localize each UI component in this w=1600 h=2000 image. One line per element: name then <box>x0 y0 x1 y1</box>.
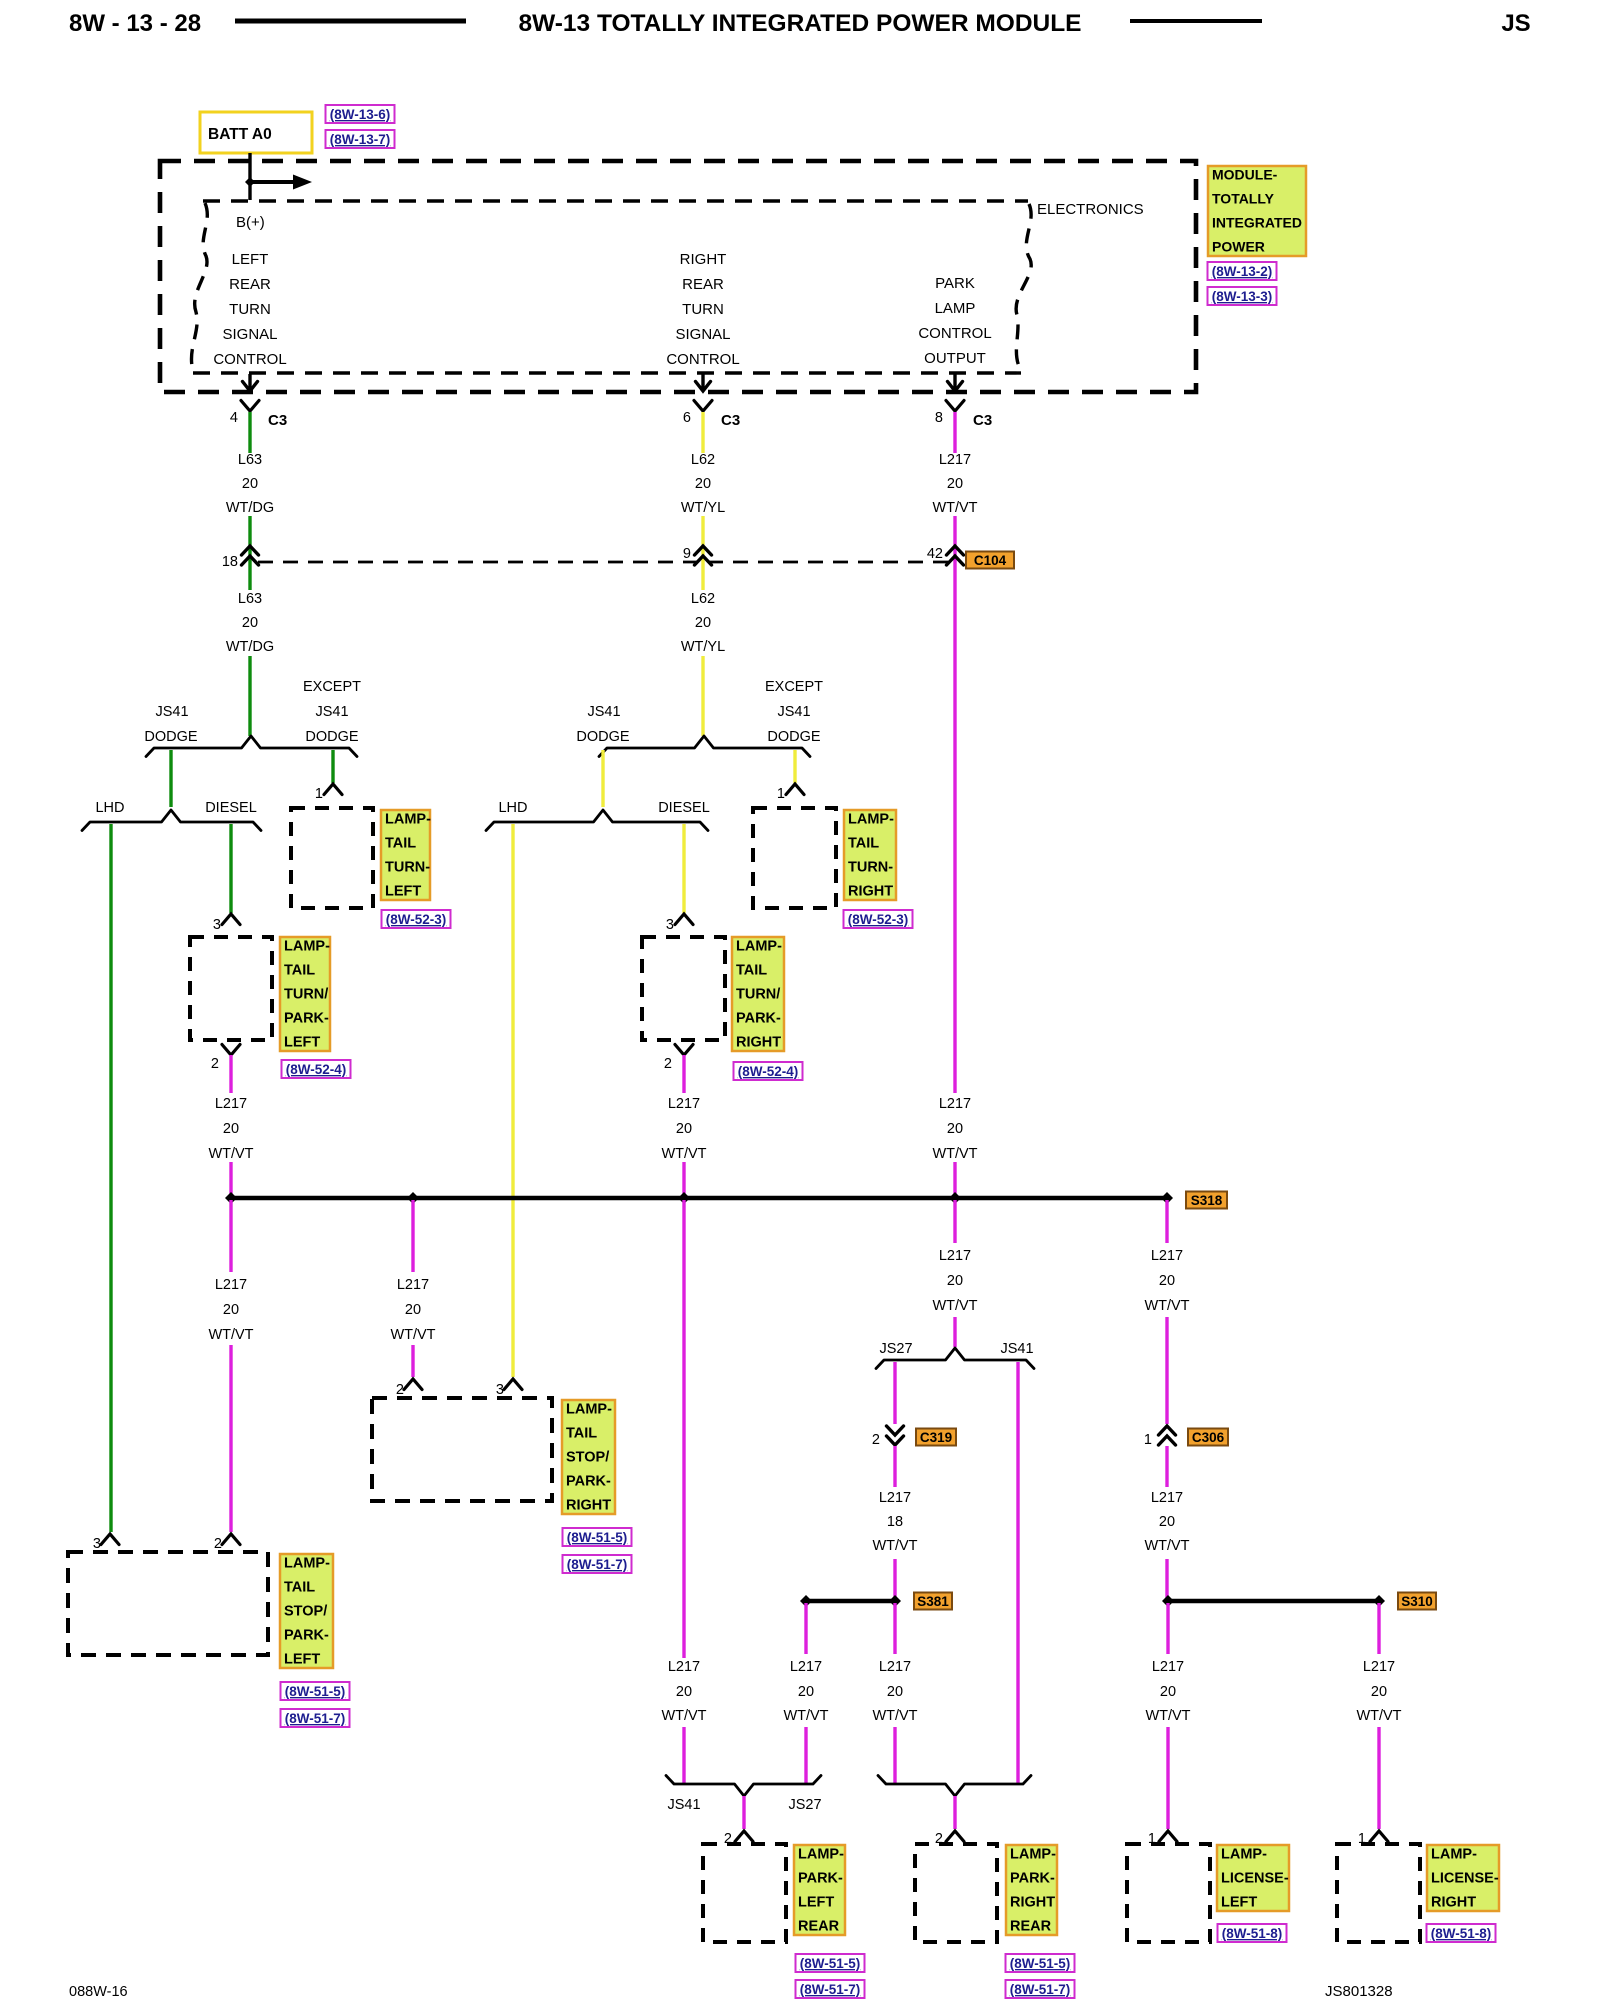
component label LAMP-TAIL STOP/PARK-LEFT <box>280 1554 333 1668</box>
svg-text:L63: L63 <box>238 591 262 607</box>
svg-text:LEFT: LEFT <box>798 1895 834 1911</box>
svg-text:DIESEL: DIESEL <box>658 800 710 816</box>
lamp license-right dashed box <box>1337 1844 1420 1942</box>
component label MODULE-TOTALLY INTEGRATED POWER <box>1208 166 1306 256</box>
svg-text:LAMP-: LAMP- <box>284 939 330 955</box>
wire EXCEPT JS41 DODGE branch (green) <box>331 750 334 783</box>
component label LAMP-TAIL TURN-LEFT <box>381 810 431 900</box>
module TIPM outer dashed box <box>160 161 1196 392</box>
svg-text:LAMP-: LAMP- <box>1221 1847 1267 1863</box>
label LHD (right) <box>498 800 527 816</box>
header right rule <box>1130 19 1262 23</box>
wire S318 to JS27/JS41 split <box>953 1200 956 1243</box>
svg-text:LICENSE-: LICENSE- <box>1431 1871 1499 1887</box>
junction S381 right <box>889 1595 901 1607</box>
reference link 8W-51-5 left <box>281 1682 350 1700</box>
pin label B(+) <box>236 214 265 231</box>
svg-text:RIGHT: RIGHT <box>1431 1895 1476 1911</box>
svg-text:6: 6 <box>683 410 691 426</box>
wire S318 to C306 branch <box>1165 1200 1168 1243</box>
svg-text:L217: L217 <box>215 1096 247 1112</box>
svg-text:3: 3 <box>93 1536 101 1552</box>
svg-text:8W-13 TOTALLY INTEGRATED POWER: 8W-13 TOTALLY INTEGRATED POWER MODULE <box>518 10 1081 37</box>
junction S318 at x=684 <box>678 1192 690 1204</box>
split brace LHD vs DIESEL (right) <box>486 810 708 831</box>
svg-text:WT/VT: WT/VT <box>390 1327 435 1343</box>
svg-text:TURN/: TURN/ <box>736 987 780 1003</box>
svg-text:STOP/: STOP/ <box>566 1450 609 1466</box>
footer sheet code left <box>69 1984 128 2000</box>
reference link 8W-51-7 park left <box>796 1980 865 1998</box>
wire label L217 lower at 413 <box>390 1277 435 1343</box>
connector pin 3 LAMP-TAIL STOP/PARK-RIGHT <box>496 1379 522 1398</box>
svg-text:B(+): B(+) <box>236 214 265 231</box>
svg-text:42: 42 <box>927 546 943 562</box>
svg-text:C3: C3 <box>973 412 992 429</box>
junction S318 at x=231 <box>225 1192 237 1204</box>
svg-text:S381: S381 <box>917 1594 949 1609</box>
svg-text:8: 8 <box>935 410 943 426</box>
svg-text:LAMP-: LAMP- <box>736 939 782 955</box>
wire label L62 20 WT/YL <box>681 452 725 516</box>
svg-text:JS41: JS41 <box>1000 1341 1033 1357</box>
lamp tail turn-right dashed box <box>753 808 836 908</box>
svg-text:SIGNAL: SIGNAL <box>222 326 277 343</box>
svg-text:L217: L217 <box>1151 1248 1183 1264</box>
svg-text:20: 20 <box>947 1121 963 1137</box>
wire L217 from turn/park-left pin2 <box>229 1055 232 1093</box>
component label LAMP-TAIL TURN/PARK-LEFT <box>280 937 330 1051</box>
svg-text:OUTPUT: OUTPUT <box>924 350 986 367</box>
label DIESEL (right) <box>658 800 710 816</box>
svg-text:WT/VT: WT/VT <box>932 1146 977 1162</box>
module output arrow pin 8 <box>948 374 963 391</box>
svg-text:PARK-: PARK- <box>566 1474 611 1490</box>
junction S310 left <box>1162 1595 1174 1607</box>
junction S318 at x=413 <box>407 1192 419 1204</box>
connector pin 2 LAMP-PARK-RIGHT REAR <box>935 1831 964 1847</box>
svg-text:LHD: LHD <box>498 800 527 816</box>
reference link 8W-13-6 <box>326 105 395 123</box>
wire JS41 DODGE branch (yellow) <box>601 750 604 807</box>
wire merge to park-left-rear pin 2 <box>742 1796 745 1829</box>
svg-text:CONTROL: CONTROL <box>666 351 739 368</box>
reference link 8W-51-7 park right <box>1006 1980 1075 1998</box>
svg-text:LAMP-: LAMP- <box>284 1556 330 1572</box>
svg-text:20: 20 <box>676 1684 692 1700</box>
svg-text:LICENSE-: LICENSE- <box>1221 1871 1289 1887</box>
wire label L217 lower at 231 <box>208 1277 253 1343</box>
wire label L217 20 WT/VT at 684 <box>661 1096 706 1162</box>
svg-text:20: 20 <box>1160 1684 1176 1700</box>
wire L217 18 below C319 <box>893 1446 896 1487</box>
wire label L217 20 WT/VT <box>932 452 977 516</box>
svg-text:20: 20 <box>1371 1684 1387 1700</box>
svg-text:L217: L217 <box>790 1659 822 1675</box>
svg-text:PARK-: PARK- <box>1010 1871 1055 1887</box>
svg-text:ELECTRONICS: ELECTRONICS <box>1037 201 1144 218</box>
svg-text:BATT A0: BATT A0 <box>208 126 272 143</box>
wire S318 to stop/park-left pin2 <box>229 1200 232 1272</box>
wire label L217 20 WT/VT at 955 <box>932 1096 977 1162</box>
wire L63 WT/DG upper <box>248 412 251 453</box>
wire S310 right branch down <box>1377 1603 1380 1654</box>
svg-text:9: 9 <box>683 546 691 562</box>
wire L217 into S318 (mid) <box>682 1162 685 1198</box>
connector pin 3 LAMP-TAIL STOP/PARK-LEFT <box>93 1534 119 1552</box>
wire label L62 20 WT/YL lower <box>681 591 725 655</box>
module pin name RIGHT REAR TURN SIGNAL CONTROL <box>666 251 739 368</box>
split brace LHD vs DIESEL (left) <box>82 810 261 831</box>
svg-text:MODULE-: MODULE- <box>1212 167 1278 183</box>
svg-text:WT/VT: WT/VT <box>1144 1538 1189 1554</box>
connector C104 pin 18 <box>222 546 259 570</box>
label S318 <box>1186 1192 1227 1209</box>
connector pin 3 LAMP-TAIL TURN/PARK-LEFT <box>213 914 240 933</box>
svg-text:L217: L217 <box>879 1659 911 1675</box>
splice S310 bus <box>1168 1599 1379 1603</box>
svg-text:2: 2 <box>872 1432 880 1448</box>
svg-text:WT/DG: WT/DG <box>226 639 274 655</box>
wire L62 through C104 <box>701 516 704 590</box>
svg-text:PARK: PARK <box>935 275 975 292</box>
svg-text:TURN: TURN <box>682 301 724 318</box>
connector pin 1 LAMP-LICENSE-LEFT <box>1148 1831 1177 1847</box>
svg-text:S310: S310 <box>1401 1594 1433 1609</box>
svg-text:LEFT: LEFT <box>385 884 421 900</box>
svg-text:JS41: JS41 <box>587 704 620 720</box>
svg-text:TAIL: TAIL <box>736 963 767 979</box>
module inner dashed boundary top <box>203 199 1028 202</box>
svg-text:(8W-51-5): (8W-51-5) <box>567 1530 628 1545</box>
svg-text:(8W-52-3): (8W-52-3) <box>386 912 447 927</box>
svg-text:REAR: REAR <box>229 276 271 293</box>
svg-text:JS41: JS41 <box>777 704 810 720</box>
svg-text:PARK-: PARK- <box>284 1628 329 1644</box>
svg-text:WT/VT: WT/VT <box>872 1708 917 1724</box>
label EXCEPT JS41 DODGE (right) <box>765 679 823 745</box>
svg-text:20: 20 <box>947 476 963 492</box>
module inner dashed boundary bottom <box>193 371 1021 374</box>
svg-text:TAIL: TAIL <box>566 1426 597 1442</box>
split brace JS27 vs JS41 <box>876 1348 1034 1369</box>
svg-text:WT/VT: WT/VT <box>208 1327 253 1343</box>
wire L217 20 below C306 <box>1165 1446 1168 1487</box>
svg-text:L217: L217 <box>879 1490 911 1506</box>
connector C3 pin 8 <box>935 401 992 430</box>
svg-text:JS41: JS41 <box>155 704 188 720</box>
svg-text:3: 3 <box>213 917 221 933</box>
reference link 8W-51-5 park right <box>1006 1954 1075 1972</box>
svg-text:L217: L217 <box>939 1096 971 1112</box>
svg-text:(8W-51-8): (8W-51-8) <box>1222 1926 1283 1941</box>
svg-text:LAMP-: LAMP- <box>566 1402 612 1418</box>
reference link 8W-51-5 park left <box>796 1954 865 1972</box>
svg-text:LEFT: LEFT <box>232 251 269 268</box>
svg-text:JS27: JS27 <box>788 1797 821 1813</box>
svg-text:WT/VT: WT/VT <box>661 1146 706 1162</box>
svg-text:1: 1 <box>1144 1432 1152 1448</box>
svg-text:L62: L62 <box>691 591 715 607</box>
svg-text:WT/YL: WT/YL <box>681 639 725 655</box>
svg-text:WT/VT: WT/VT <box>1356 1708 1401 1724</box>
svg-text:DODGE: DODGE <box>576 729 630 745</box>
svg-text:JS27: JS27 <box>879 1341 912 1357</box>
component label LAMP-TAIL TURN-RIGHT <box>844 810 896 900</box>
reference link 8W-52-3 left <box>382 910 451 928</box>
wire S318 down-mid long branch <box>682 1200 685 1658</box>
svg-text:C3: C3 <box>721 412 740 429</box>
header page number <box>69 10 201 37</box>
svg-text:(8W-13-7): (8W-13-7) <box>330 132 391 147</box>
wire merge to park-right-rear pin 2 <box>953 1796 956 1829</box>
svg-text:088W-16: 088W-16 <box>69 1984 128 2000</box>
header JS <box>1501 10 1530 37</box>
svg-text:2: 2 <box>664 1056 672 1072</box>
svg-text:4: 4 <box>230 410 238 426</box>
svg-text:DODGE: DODGE <box>144 729 198 745</box>
wire DIESEL branch (yellow) <box>682 824 685 913</box>
svg-text:RIGHT: RIGHT <box>736 1035 781 1051</box>
svg-text:PARK-: PARK- <box>736 1011 781 1027</box>
svg-text:1: 1 <box>777 786 785 802</box>
label JS27 (bottom left merge) <box>788 1797 821 1813</box>
wire label L217 below S318 at 955 <box>932 1248 977 1314</box>
svg-text:(8W-51-7): (8W-51-7) <box>1010 1982 1071 1997</box>
wire S381 right branch down <box>893 1603 896 1654</box>
svg-text:L217: L217 <box>939 1248 971 1264</box>
svg-text:DODGE: DODGE <box>767 729 821 745</box>
svg-text:WT/VT: WT/VT <box>872 1538 917 1554</box>
svg-text:20: 20 <box>223 1121 239 1137</box>
wire into park-left-rear split <box>682 1727 685 1783</box>
svg-text:DIESEL: DIESEL <box>205 800 257 816</box>
connector pin 1 LAMP-TAIL TURN-LEFT <box>315 784 342 802</box>
connector pin 2 LAMP-TAIL TURN/PARK-RIGHT <box>664 1045 693 1073</box>
junction dot B(+) <box>245 177 255 187</box>
svg-text:3: 3 <box>666 917 674 933</box>
svg-text:WT/VT: WT/VT <box>208 1146 253 1162</box>
label C319 <box>916 1429 956 1446</box>
reference link 8W-51-8 right <box>1427 1924 1496 1942</box>
wire label L217 at 806 <box>783 1659 828 1724</box>
svg-text:L217: L217 <box>1151 1490 1183 1506</box>
svg-text:(8W-52-4): (8W-52-4) <box>738 1064 799 1079</box>
module section ELECTRONICS <box>1037 201 1144 218</box>
splice S381 bus <box>806 1599 895 1603</box>
svg-text:LAMP-: LAMP- <box>1431 1847 1477 1863</box>
reference link 8W-51-8 left <box>1218 1924 1287 1942</box>
connector C104 pin 42 <box>927 546 964 565</box>
wire L217 into S318 (left) <box>229 1162 232 1198</box>
reference link 8W-13-7 <box>326 130 395 148</box>
svg-text:(8W-51-5): (8W-51-5) <box>800 1956 861 1971</box>
svg-text:L63: L63 <box>238 452 262 468</box>
reference link 8W-52-4 right <box>734 1062 803 1080</box>
svg-text:L217: L217 <box>668 1659 700 1675</box>
wire LHD long branch (yellow) <box>511 824 514 1377</box>
svg-text:L217: L217 <box>1152 1659 1184 1675</box>
svg-text:20: 20 <box>1159 1514 1175 1530</box>
svg-text:RIGHT: RIGHT <box>848 884 893 900</box>
svg-text:WT/VT: WT/VT <box>932 500 977 516</box>
svg-text:PARK-: PARK- <box>798 1871 843 1887</box>
wire label L217 at 1379 lower <box>1356 1659 1401 1724</box>
wire LHD long branch (green) <box>109 824 112 1532</box>
reference link 8W-52-4 left <box>282 1060 351 1078</box>
svg-text:20: 20 <box>695 476 711 492</box>
component label LAMP-TAIL TURN/PARK-RIGHT <box>732 937 784 1051</box>
svg-text:CONTROL: CONTROL <box>918 325 991 342</box>
wire label L217 20 below C306 <box>1144 1490 1189 1554</box>
svg-text:WT/VT: WT/VT <box>783 1708 828 1724</box>
label S381 <box>914 1593 952 1610</box>
module inner wavy right edge <box>1016 204 1031 371</box>
wire EXCEPT JS41 DODGE branch (yellow) <box>793 750 796 783</box>
merge brace JS27/JS41 (park-right rear) <box>878 1776 1031 1797</box>
connector C319 pin 2 <box>872 1426 904 1448</box>
svg-text:EXCEPT: EXCEPT <box>765 679 823 695</box>
svg-text:LAMP-: LAMP- <box>798 1847 844 1863</box>
module pin name LEFT REAR TURN SIGNAL CONTROL <box>213 251 286 368</box>
svg-text:LAMP-: LAMP- <box>1010 1847 1056 1863</box>
wire S381 left branch down <box>804 1603 807 1654</box>
svg-text:LEFT: LEFT <box>284 1035 320 1051</box>
connector C306 pin 1 <box>1144 1426 1176 1448</box>
svg-text:20: 20 <box>242 476 258 492</box>
svg-text:(8W-51-5): (8W-51-5) <box>1010 1956 1071 1971</box>
wire label L217 18 WT/VT <box>872 1490 917 1554</box>
lamp tail stop/park-left dashed box <box>68 1552 268 1655</box>
svg-text:20: 20 <box>405 1302 421 1318</box>
lamp tail turn-left dashed box <box>291 808 373 908</box>
wire L62 to split <box>701 656 704 736</box>
svg-text:STOP/: STOP/ <box>284 1604 327 1620</box>
merge brace JS41/JS27 (park-left rear) <box>666 1776 821 1797</box>
header title <box>518 10 1081 37</box>
wire L217 WT/VT upper <box>953 412 956 453</box>
svg-text:EXCEPT: EXCEPT <box>303 679 361 695</box>
connector pin 2 LAMP-TAIL TURN/PARK-LEFT <box>211 1045 240 1073</box>
svg-text:RIGHT: RIGHT <box>566 1498 611 1514</box>
component label LAMP-PARK-RIGHT REAR <box>1006 1845 1057 1935</box>
junction S381 left <box>800 1595 812 1607</box>
svg-text:REAR: REAR <box>682 276 724 293</box>
svg-text:(8W-51-8): (8W-51-8) <box>1431 1926 1492 1941</box>
wire L62 WT/YL upper <box>701 412 704 453</box>
svg-text:TURN-: TURN- <box>385 860 430 876</box>
svg-text:20: 20 <box>947 1273 963 1289</box>
svg-text:CONTROL: CONTROL <box>213 351 286 368</box>
svg-text:POWER: POWER <box>1212 239 1265 255</box>
svg-text:S318: S318 <box>1191 1193 1223 1208</box>
label C104 <box>966 552 1014 569</box>
split brace JS41 DODGE vs EXCEPT JS41 DODGE (right) <box>599 736 810 757</box>
connector C3 pin 6 <box>683 401 740 430</box>
svg-text:L62: L62 <box>691 452 715 468</box>
connector C104 dashed tie line <box>258 561 948 564</box>
component label LAMP-TAIL STOP/PARK-RIGHT <box>562 1400 615 1514</box>
lamp tail turn/park-right dashed box <box>642 937 725 1040</box>
svg-text:WT/YL: WT/YL <box>681 500 725 516</box>
svg-text:LEFT: LEFT <box>284 1652 320 1668</box>
wire JS27 branch to C319 <box>893 1362 896 1424</box>
svg-text:(8W-52-3): (8W-52-3) <box>848 912 909 927</box>
arrow B(+) feed <box>250 175 312 190</box>
label DIESEL (left) <box>205 800 257 816</box>
wire L63 to split <box>248 656 251 736</box>
label EXCEPT JS41 DODGE (left) <box>303 679 361 745</box>
svg-text:20: 20 <box>1159 1273 1175 1289</box>
wire L217 into S318 (park output) <box>953 1162 956 1198</box>
wire JS41 DODGE branch (green) <box>169 750 172 807</box>
svg-text:WT/DG: WT/DG <box>226 500 274 516</box>
reference link 8W-52-3 right <box>844 910 913 928</box>
svg-text:(8W-51-5): (8W-51-5) <box>285 1684 346 1699</box>
svg-text:20: 20 <box>223 1302 239 1318</box>
battery feed BATT A0 <box>200 112 312 153</box>
svg-text:PARK-: PARK- <box>284 1011 329 1027</box>
svg-text:18: 18 <box>887 1514 903 1530</box>
svg-text:(8W-13-2): (8W-13-2) <box>1212 264 1273 279</box>
wire label L217 at 684 lower <box>661 1659 706 1724</box>
reference link 8W-13-2 <box>1208 262 1277 280</box>
reference link 8W-51-7 left <box>281 1709 350 1727</box>
wire DIESEL branch (green) <box>229 824 232 913</box>
label JS41 DODGE (right) <box>576 704 630 745</box>
svg-text:JS41: JS41 <box>667 1797 700 1813</box>
svg-text:1: 1 <box>315 786 323 802</box>
svg-text:TAIL: TAIL <box>385 836 416 852</box>
svg-text:LEFT: LEFT <box>1221 1895 1257 1911</box>
svg-text:(8W-51-7): (8W-51-7) <box>567 1557 628 1572</box>
svg-text:20: 20 <box>695 615 711 631</box>
svg-text:TAIL: TAIL <box>284 1580 315 1596</box>
svg-text:20: 20 <box>242 615 258 631</box>
svg-text:C306: C306 <box>1192 1430 1225 1445</box>
connector pin 2 LAMP-TAIL STOP/PARK-LEFT <box>214 1534 240 1552</box>
lamp tail turn/park-left dashed box <box>190 937 272 1040</box>
svg-text:TURN-: TURN- <box>848 860 893 876</box>
label JS41 DODGE (left) <box>144 704 198 745</box>
label JS41 (bottom left merge) <box>667 1797 700 1813</box>
svg-text:L217: L217 <box>215 1277 247 1293</box>
svg-text:(8W-13-6): (8W-13-6) <box>330 107 391 122</box>
svg-text:LAMP: LAMP <box>935 300 976 317</box>
svg-text:2: 2 <box>214 1536 222 1552</box>
svg-text:(8W-52-4): (8W-52-4) <box>286 1062 347 1077</box>
junction S318 at x=955 <box>949 1192 961 1204</box>
connector pin 2 LAMP-TAIL STOP/PARK-RIGHT <box>396 1379 422 1398</box>
splice S318 bus <box>231 1196 1167 1200</box>
svg-text:TAIL: TAIL <box>848 836 879 852</box>
svg-text:LAMP-: LAMP- <box>848 812 894 828</box>
svg-text:TURN/: TURN/ <box>284 987 328 1003</box>
wire label L217 20 WT/VT at 231 <box>208 1096 253 1162</box>
svg-text:JS41: JS41 <box>315 704 348 720</box>
reference link 8W-51-7 mid <box>563 1555 632 1573</box>
svg-text:SIGNAL: SIGNAL <box>675 326 730 343</box>
svg-text:2: 2 <box>396 1382 404 1398</box>
label LHD (left) <box>95 800 124 816</box>
module output arrow pin 6 <box>696 374 711 391</box>
component label LAMP-LICENSE-LEFT <box>1217 1845 1289 1911</box>
svg-text:WT/VT: WT/VT <box>932 1298 977 1314</box>
wire JS41 long branch <box>1016 1362 1019 1783</box>
svg-text:L217: L217 <box>1363 1659 1395 1675</box>
svg-text:C3: C3 <box>268 412 287 429</box>
wire S310 left branch down <box>1166 1603 1169 1654</box>
